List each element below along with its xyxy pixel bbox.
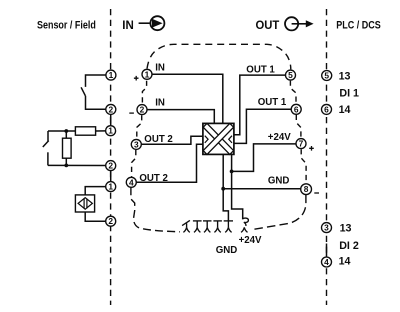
svg-text:13: 13 (339, 70, 351, 82)
svg-text:1: 1 (108, 126, 113, 136)
svg-text:14: 14 (339, 104, 351, 116)
svg-text:3: 3 (134, 139, 139, 149)
svg-text:2: 2 (108, 216, 113, 226)
svg-text:PLC / DCS: PLC / DCS (336, 20, 381, 32)
svg-text:IN: IN (122, 20, 134, 32)
svg-text:2: 2 (140, 105, 145, 115)
svg-text:OUT 2: OUT 2 (139, 173, 168, 184)
svg-text:OUT 1: OUT 1 (246, 65, 275, 76)
svg-text:6: 6 (294, 104, 299, 114)
svg-text:OUT: OUT (256, 20, 280, 32)
svg-text:IN: IN (155, 97, 165, 108)
svg-text:14: 14 (339, 256, 351, 268)
svg-text:4: 4 (324, 257, 329, 267)
svg-text:Sensor / Field: Sensor / Field (37, 20, 96, 32)
svg-text:OUT 1: OUT 1 (258, 97, 287, 108)
svg-text:DI 2: DI 2 (339, 240, 359, 252)
svg-text:1: 1 (109, 70, 114, 80)
svg-text:2: 2 (108, 161, 113, 171)
svg-text:1: 1 (108, 182, 113, 192)
svg-text:IN: IN (155, 62, 165, 73)
svg-text:+24V: +24V (239, 235, 262, 246)
svg-text:GND: GND (268, 175, 290, 186)
svg-text:7: 7 (299, 139, 304, 149)
svg-text:GND: GND (216, 245, 238, 256)
svg-text:5: 5 (324, 71, 329, 81)
svg-text:1: 1 (145, 69, 150, 79)
svg-text:13: 13 (340, 223, 352, 235)
svg-text:4: 4 (129, 177, 134, 187)
svg-text:8: 8 (304, 184, 309, 194)
svg-text:+24V: +24V (268, 132, 291, 143)
svg-text:6: 6 (324, 104, 329, 114)
svg-text:DI 1: DI 1 (339, 88, 359, 100)
svg-text:5: 5 (288, 70, 293, 80)
svg-text:OUT 2: OUT 2 (144, 134, 173, 145)
svg-text:2: 2 (108, 104, 113, 114)
svg-text:3: 3 (324, 223, 329, 233)
